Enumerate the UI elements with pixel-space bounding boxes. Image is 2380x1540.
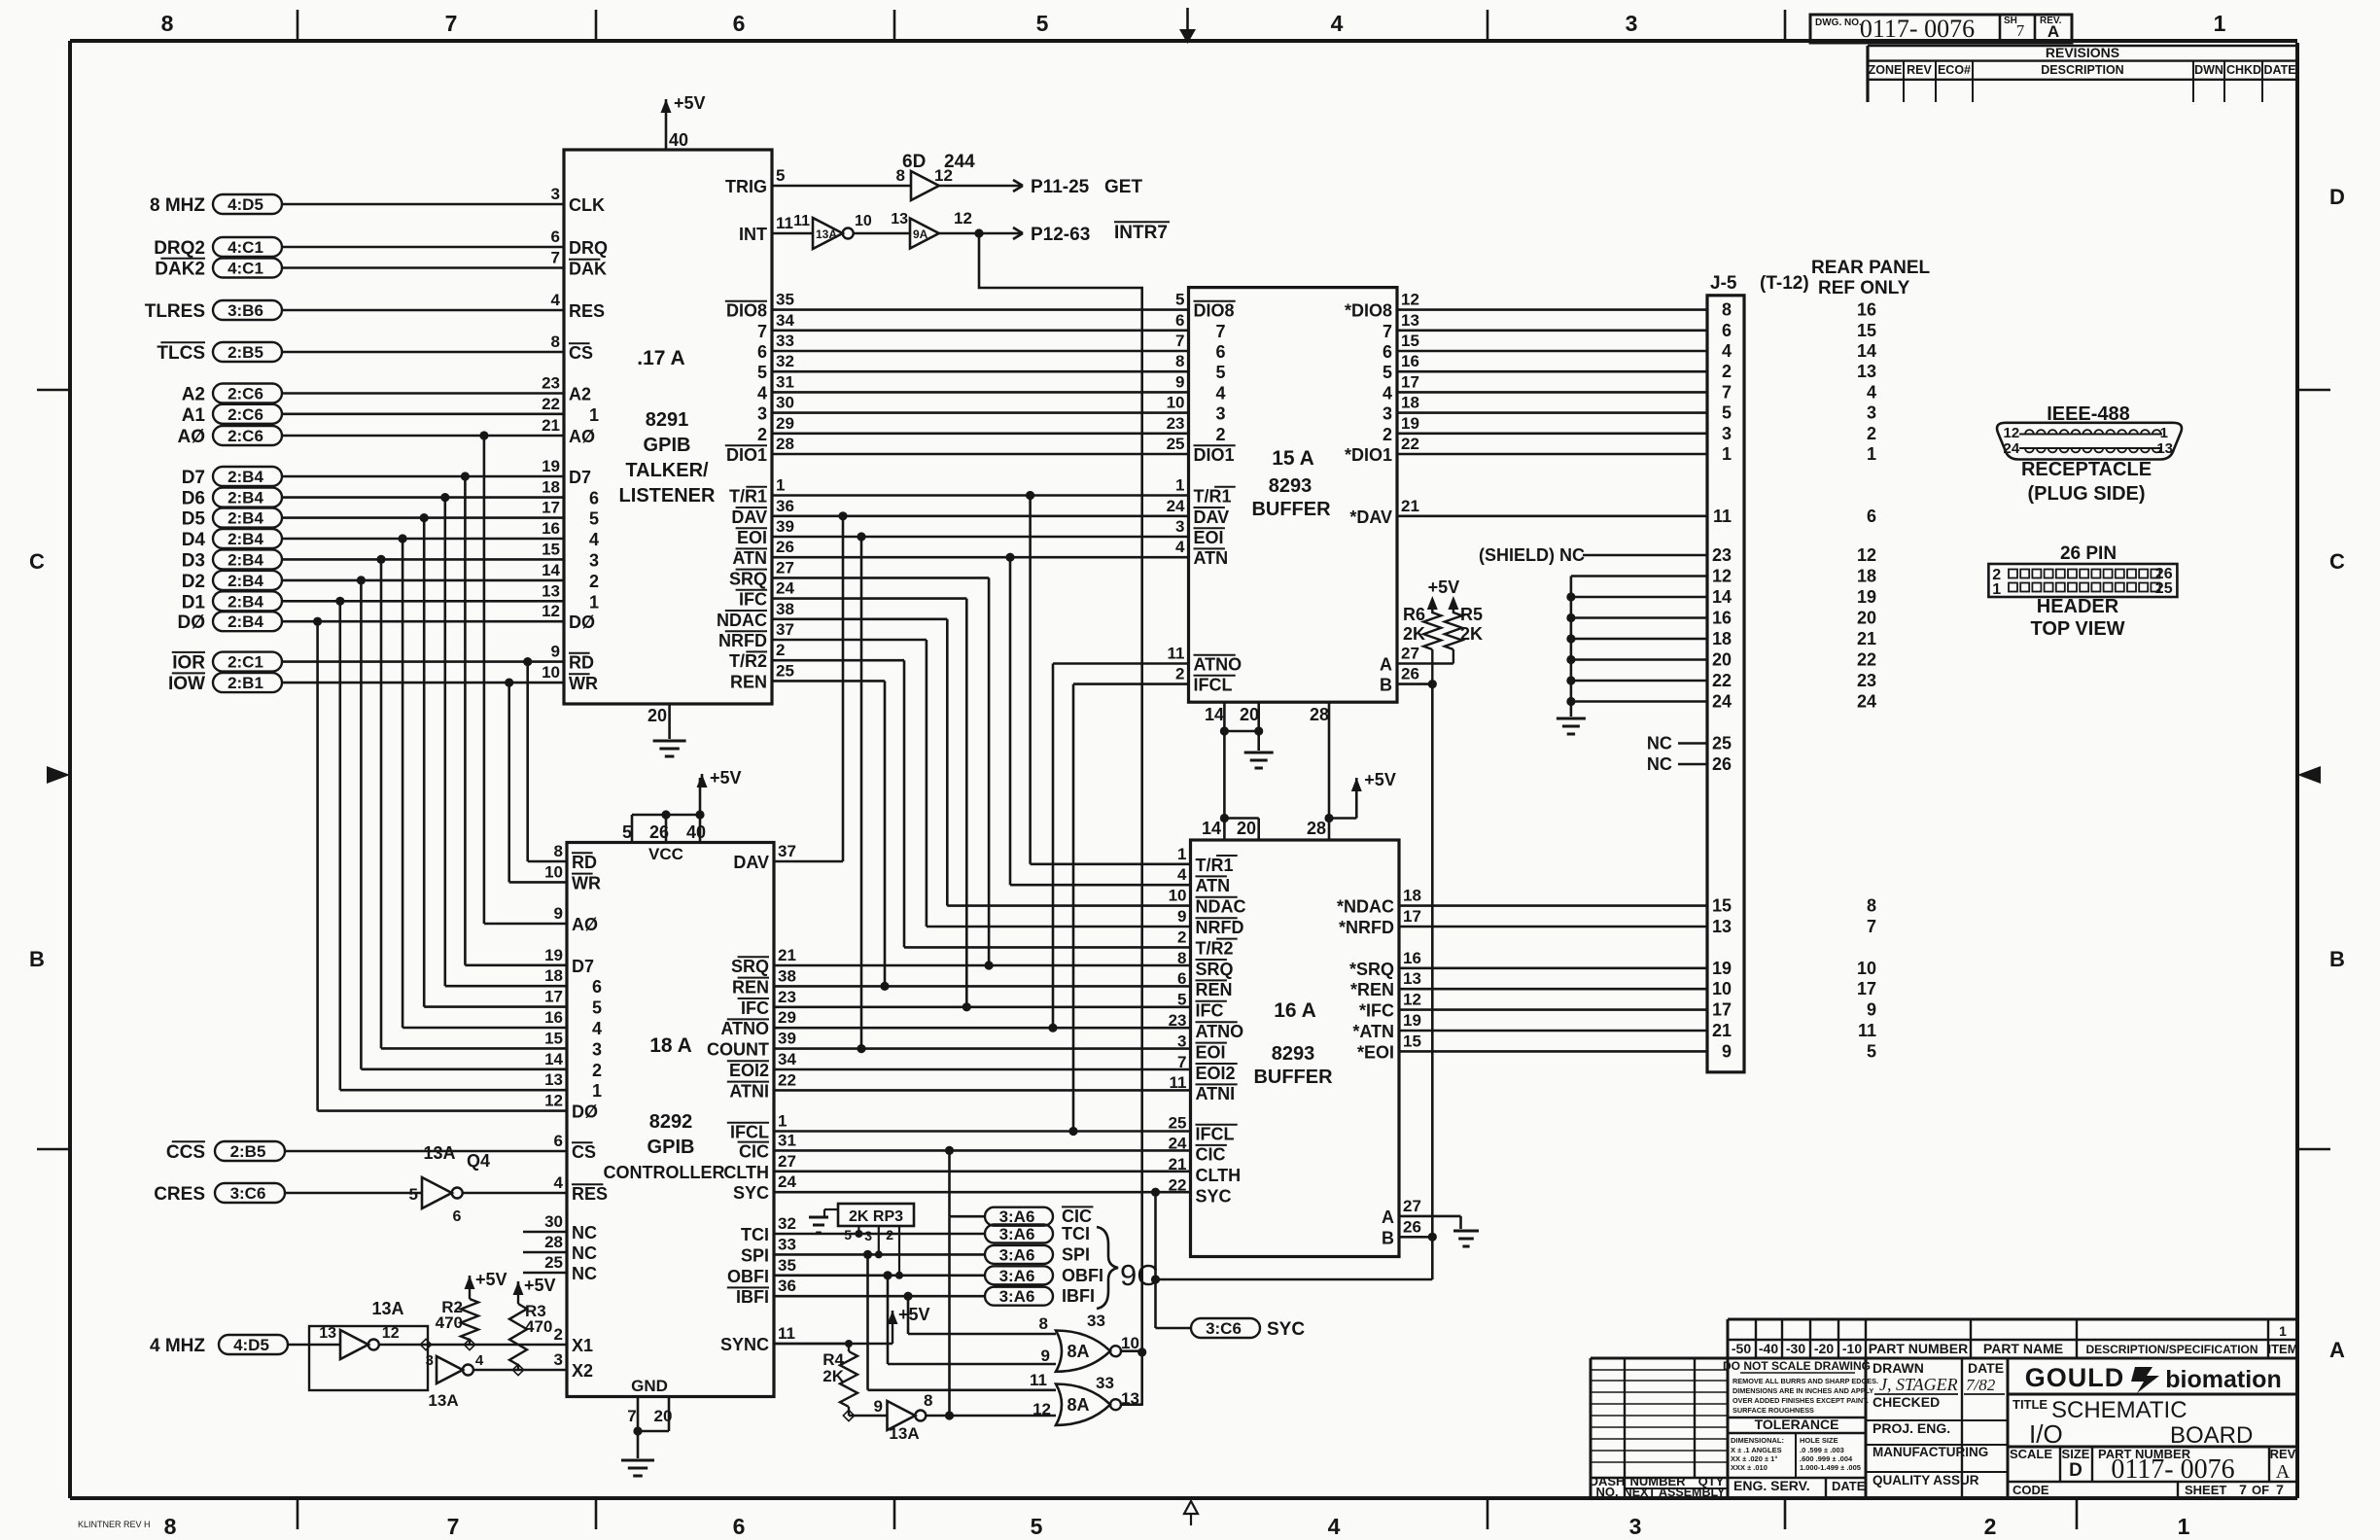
svg-text:13A: 13A: [889, 1424, 919, 1443]
svg-text:DWN: DWN: [2194, 63, 2223, 77]
svg-text:13: 13: [542, 581, 560, 600]
svg-text:470: 470: [525, 1317, 552, 1336]
svg-text:2:B4: 2:B4: [227, 468, 263, 486]
svg-text:37: 37: [776, 620, 794, 639]
svg-text:REN: REN: [730, 672, 767, 691]
svg-text:9: 9: [1175, 372, 1184, 391]
svg-text:29: 29: [776, 414, 794, 433]
svg-text:11: 11: [793, 213, 810, 229]
svg-text:D: D: [2069, 1460, 2082, 1481]
svg-text:IFCL: IFCL: [1196, 1125, 1235, 1144]
svg-text:X2: X2: [572, 1361, 593, 1381]
svg-text:3: 3: [1629, 1514, 1642, 1539]
svg-text:13A: 13A: [816, 227, 837, 241]
svg-text:3: 3: [757, 404, 767, 424]
svg-text:7: 7: [2239, 1482, 2247, 1497]
svg-text:GPIB: GPIB: [644, 435, 691, 456]
svg-text:DWG. NO.: DWG. NO.: [1815, 17, 1862, 28]
svg-text:AØ: AØ: [569, 427, 595, 446]
svg-text:28: 28: [1307, 819, 1326, 838]
svg-text:8 MHZ: 8 MHZ: [150, 195, 205, 216]
svg-text:14: 14: [1857, 341, 1876, 361]
svg-text:13: 13: [1121, 1389, 1139, 1408]
svg-text:PROJ. ENG.: PROJ. ENG.: [1872, 1420, 1950, 1436]
svg-text:12: 12: [1857, 545, 1876, 565]
svg-text:DRAWN: DRAWN: [1872, 1360, 1924, 1376]
svg-text:34: 34: [778, 1050, 796, 1068]
svg-text:6: 6: [757, 342, 767, 362]
svg-text:ATNO: ATNO: [1194, 655, 1242, 675]
svg-text:24: 24: [1857, 692, 1876, 712]
svg-text:1: 1: [1992, 581, 2001, 598]
svg-text:DATE: DATE: [2263, 63, 2295, 77]
svg-text:SYC: SYC: [733, 1183, 769, 1203]
svg-text:NDAC: NDAC: [717, 611, 767, 630]
svg-text:LISTENER: LISTENER: [619, 485, 716, 507]
svg-text:6: 6: [1722, 321, 1732, 340]
svg-text:CLK: CLK: [569, 195, 605, 215]
svg-text:RECEPTACLE: RECEPTACLE: [2021, 459, 2152, 480]
svg-text:19: 19: [1403, 1011, 1421, 1030]
svg-text:A2: A2: [182, 385, 205, 405]
svg-text:23: 23: [778, 988, 796, 1006]
svg-text:22: 22: [1401, 435, 1419, 453]
svg-text:36: 36: [778, 1277, 796, 1295]
svg-text:.0 .599 ± .003: .0 .599 ± .003: [1800, 1446, 1844, 1454]
svg-text:7: 7: [1722, 382, 1732, 402]
svg-text:22: 22: [542, 395, 560, 413]
svg-text:29: 29: [778, 1008, 796, 1027]
svg-text:4: 4: [589, 530, 599, 549]
svg-text:8: 8: [161, 11, 174, 36]
svg-text:4: 4: [1177, 865, 1187, 884]
svg-text:5: 5: [622, 822, 632, 842]
svg-text:MANUFACTURING: MANUFACTURING: [1872, 1445, 1988, 1459]
svg-text:.17 A: .17 A: [637, 347, 684, 369]
svg-text:RES: RES: [569, 301, 605, 321]
svg-text:13A: 13A: [428, 1391, 458, 1410]
svg-text:3: 3: [1175, 517, 1184, 536]
svg-text:C: C: [2329, 549, 2345, 574]
svg-text:17: 17: [542, 499, 560, 517]
svg-text:2: 2: [886, 1227, 893, 1242]
svg-text:3:A6: 3:A6: [999, 1245, 1035, 1264]
svg-text:4: 4: [592, 1019, 602, 1038]
svg-text:5: 5: [1031, 1514, 1043, 1539]
svg-text:35: 35: [778, 1256, 796, 1275]
svg-text:4: 4: [1867, 382, 1876, 402]
svg-text:DØ: DØ: [178, 612, 206, 633]
svg-text:1: 1: [592, 1081, 602, 1101]
svg-text:9: 9: [551, 643, 560, 661]
svg-text:7: 7: [1216, 322, 1226, 341]
svg-text:38: 38: [778, 966, 796, 985]
svg-text:D1: D1: [182, 592, 206, 612]
svg-text:BOARD: BOARD: [2170, 1422, 2253, 1449]
svg-text:IBFI: IBFI: [1062, 1286, 1095, 1306]
svg-text:19: 19: [544, 946, 563, 964]
svg-text:9: 9: [1867, 1000, 1876, 1020]
svg-text:T/R1: T/R1: [729, 487, 767, 507]
svg-text:2:B4: 2:B4: [227, 572, 263, 590]
svg-text:8A: 8A: [1067, 1342, 1089, 1361]
svg-text:TLRES: TLRES: [145, 301, 205, 322]
svg-text:EOI2: EOI2: [729, 1061, 769, 1080]
svg-text:REVISIONS: REVISIONS: [2046, 45, 2119, 60]
svg-text:2:B5: 2:B5: [230, 1142, 266, 1161]
svg-text:3: 3: [592, 1039, 602, 1059]
svg-text:1.000-1.499 ± .005: 1.000-1.499 ± .005: [1800, 1463, 1861, 1472]
svg-text:B: B: [1382, 1228, 1394, 1247]
svg-text:7: 7: [2276, 1482, 2284, 1497]
svg-text:3: 3: [554, 1350, 563, 1369]
svg-text:+5V: +5V: [1428, 577, 1460, 597]
svg-text:5: 5: [776, 166, 785, 185]
svg-text:10: 10: [542, 663, 560, 682]
svg-text:4: 4: [551, 291, 561, 309]
svg-text:31: 31: [776, 372, 794, 391]
svg-text:GOULD: GOULD: [2025, 1363, 2125, 1392]
svg-text:*EOI: *EOI: [1357, 1042, 1394, 1062]
svg-text:REN: REN: [732, 977, 769, 997]
svg-text:CS: CS: [572, 1142, 596, 1162]
svg-text:27: 27: [1403, 1197, 1421, 1215]
svg-text:SRQ: SRQ: [729, 569, 767, 588]
svg-text:RES: RES: [572, 1184, 608, 1204]
svg-text:EOI2: EOI2: [1196, 1064, 1236, 1083]
svg-text:3: 3: [589, 550, 599, 570]
svg-text:6: 6: [1216, 342, 1226, 362]
svg-text:5: 5: [1036, 11, 1049, 36]
svg-text:DRQ: DRQ: [569, 238, 608, 258]
svg-text:.600 .999 ± .004: .600 .999 ± .004: [1800, 1454, 1853, 1463]
svg-text:KLINTNER REV H: KLINTNER REV H: [78, 1520, 151, 1529]
svg-text:5: 5: [1216, 363, 1226, 382]
svg-text:28: 28: [544, 1233, 563, 1251]
svg-text:2: 2: [554, 1325, 563, 1344]
svg-text:IFC: IFC: [741, 998, 769, 1018]
svg-text:40: 40: [686, 822, 706, 842]
svg-text:biomation: biomation: [2165, 1366, 2281, 1393]
svg-text:12: 12: [1401, 291, 1419, 309]
svg-text:0117- 0076: 0117- 0076: [2111, 1454, 2234, 1485]
svg-text:A2: A2: [569, 385, 591, 404]
svg-text:7: 7: [551, 249, 560, 267]
svg-text:1: 1: [1867, 444, 1876, 464]
svg-text:6: 6: [592, 977, 602, 997]
svg-text:EOI: EOI: [1194, 528, 1224, 547]
svg-text:ATNI: ATNI: [729, 1081, 769, 1101]
svg-text:7: 7: [1867, 917, 1876, 936]
svg-text:7: 7: [447, 1514, 460, 1539]
svg-text:DAV: DAV: [1194, 507, 1230, 527]
svg-text:XXX ± .010: XXX ± .010: [1731, 1463, 1767, 1472]
svg-text:-40: -40: [1759, 1341, 1778, 1356]
svg-text:*DIO8: *DIO8: [1345, 301, 1392, 321]
svg-text:0117- 0076: 0117- 0076: [1860, 15, 1975, 43]
svg-text:10: 10: [855, 213, 872, 229]
svg-text:11: 11: [1858, 1021, 1876, 1040]
svg-text:9: 9: [874, 1397, 883, 1416]
svg-text:12: 12: [2004, 425, 2020, 441]
svg-text:D7: D7: [572, 957, 594, 976]
svg-text:DIO1: DIO1: [1194, 445, 1235, 465]
svg-text:DRQ2: DRQ2: [154, 238, 205, 259]
svg-text:ATN: ATN: [1196, 876, 1231, 895]
svg-text:12: 12: [1712, 567, 1732, 586]
svg-text:8291: 8291: [646, 409, 689, 431]
svg-text:BUFFER: BUFFER: [1253, 1067, 1333, 1088]
svg-text:33: 33: [1096, 1374, 1114, 1392]
svg-text:DIO1: DIO1: [726, 445, 767, 465]
svg-text:D3: D3: [182, 550, 205, 571]
svg-text:8: 8: [551, 332, 560, 351]
svg-text:26: 26: [1712, 754, 1732, 774]
svg-text:ITEM: ITEM: [2267, 1342, 2297, 1356]
svg-text:8293: 8293: [1269, 475, 1312, 497]
svg-text:22: 22: [1857, 650, 1876, 670]
svg-text:1: 1: [778, 1112, 787, 1131]
svg-text:DIMENSIONAL:: DIMENSIONAL:: [1731, 1436, 1784, 1445]
svg-text:8: 8: [1722, 300, 1732, 320]
svg-text:3: 3: [1722, 424, 1732, 443]
svg-text:6: 6: [551, 227, 560, 246]
svg-text:13A: 13A: [423, 1143, 455, 1163]
svg-text:24: 24: [1712, 692, 1732, 712]
svg-text:11: 11: [1030, 1371, 1047, 1389]
svg-text:20: 20: [1237, 819, 1256, 838]
svg-text:ECO#: ECO#: [1938, 63, 1971, 77]
svg-text:2: 2: [1175, 665, 1184, 683]
svg-text:6: 6: [733, 11, 746, 36]
svg-text:4: 4: [1216, 383, 1226, 402]
svg-text:GET: GET: [1104, 177, 1142, 197]
svg-text:SRQ: SRQ: [1196, 960, 1234, 979]
svg-text:2:B4: 2:B4: [227, 530, 263, 548]
svg-text:3: 3: [864, 1228, 872, 1243]
svg-text:DAV: DAV: [733, 853, 769, 872]
svg-text:13: 13: [1857, 362, 1876, 381]
svg-text:X ± .1 ANGLES: X ± .1 ANGLES: [1731, 1446, 1782, 1454]
svg-text:NO.: NO.: [1595, 1485, 1618, 1499]
svg-text:35: 35: [776, 291, 794, 309]
svg-text:4: 4: [1382, 383, 1392, 402]
svg-text:2:B4: 2:B4: [227, 489, 263, 507]
svg-text:11: 11: [778, 1324, 795, 1343]
svg-text:SCALE: SCALE: [2010, 1447, 2052, 1461]
svg-text:HOLE SIZE: HOLE SIZE: [1800, 1436, 1838, 1445]
svg-text:ATNI: ATNI: [1196, 1084, 1236, 1103]
svg-text:A: A: [2047, 22, 2059, 41]
svg-text:21: 21: [1857, 629, 1876, 648]
svg-text:CHECKED: CHECKED: [1872, 1394, 1940, 1410]
svg-text:SHEET: SHEET: [2185, 1483, 2226, 1497]
svg-text:X1: X1: [572, 1336, 593, 1355]
svg-text:NRFD: NRFD: [1196, 918, 1244, 937]
svg-text:1: 1: [776, 476, 785, 495]
svg-text:A: A: [1380, 655, 1392, 675]
svg-text:INT: INT: [739, 225, 767, 244]
svg-text:DØ: DØ: [572, 1102, 598, 1122]
svg-text:5: 5: [589, 509, 599, 529]
svg-text:6: 6: [589, 489, 599, 508]
svg-text:13: 13: [1403, 969, 1421, 988]
svg-text:*REN: *REN: [1350, 980, 1394, 999]
svg-text:DESCRIPTION: DESCRIPTION: [2041, 63, 2123, 77]
svg-text:25: 25: [776, 661, 794, 680]
svg-text:24: 24: [2004, 440, 2020, 457]
svg-text:2:B4: 2:B4: [227, 592, 263, 611]
svg-text:DAK: DAK: [569, 260, 607, 279]
svg-text:4:D5: 4:D5: [227, 195, 263, 214]
svg-text:NC: NC: [572, 1243, 597, 1263]
svg-text:4: 4: [1175, 538, 1185, 556]
svg-text:*NDAC: *NDAC: [1337, 897, 1394, 917]
svg-text:HEADER: HEADER: [2037, 596, 2119, 617]
svg-text:15: 15: [1712, 896, 1732, 916]
svg-text:IBFI: IBFI: [736, 1287, 769, 1307]
svg-text:QUALITY ASSUR: QUALITY ASSUR: [1872, 1473, 1979, 1487]
svg-text:32: 32: [776, 352, 794, 370]
svg-text:XX ± .020 ± 1°: XX ± .020 ± 1°: [1731, 1454, 1777, 1463]
svg-text:P11-25: P11-25: [1031, 177, 1090, 197]
svg-text:DAK2: DAK2: [155, 260, 205, 280]
svg-text:*NRFD: *NRFD: [1339, 918, 1394, 937]
svg-text:3: 3: [1216, 404, 1226, 424]
svg-text:BUFFER: BUFFER: [1251, 499, 1331, 520]
svg-text:NEXT ASSEMBLY: NEXT ASSEMBLY: [1624, 1486, 1726, 1499]
svg-text:24: 24: [778, 1172, 796, 1191]
svg-text:D5: D5: [182, 509, 206, 530]
svg-text:18: 18: [1857, 567, 1876, 586]
svg-text:18: 18: [542, 478, 560, 497]
svg-text:1: 1: [1175, 476, 1184, 495]
svg-text:+5V: +5V: [1364, 770, 1396, 789]
svg-text:EOI: EOI: [1196, 1042, 1226, 1062]
svg-text:7: 7: [445, 11, 458, 36]
svg-text:2:B4: 2:B4: [227, 612, 263, 631]
svg-text:IOR: IOR: [172, 653, 205, 674]
svg-text:SCHEMATIC: SCHEMATIC: [2051, 1397, 2187, 1423]
svg-text:9: 9: [1722, 1041, 1732, 1061]
svg-text:REN: REN: [1196, 980, 1233, 999]
svg-text:OBFI: OBFI: [1062, 1266, 1103, 1285]
svg-text:*DIO1: *DIO1: [1345, 445, 1392, 465]
svg-text:23: 23: [1712, 545, 1732, 565]
svg-text:NC: NC: [572, 1223, 597, 1242]
svg-text:6: 6: [453, 1208, 462, 1225]
svg-text:IFC: IFC: [1196, 1001, 1224, 1021]
svg-text:DØ: DØ: [569, 612, 595, 632]
svg-text:21: 21: [778, 946, 796, 964]
svg-text:19: 19: [542, 457, 560, 475]
svg-text:470: 470: [436, 1313, 463, 1332]
svg-text:15 A: 15 A: [1272, 447, 1314, 470]
svg-text:D4: D4: [182, 530, 206, 550]
svg-text:TOP VIEW: TOP VIEW: [2030, 618, 2124, 640]
svg-text:30: 30: [544, 1212, 563, 1231]
svg-text:(T-12): (T-12): [1760, 273, 1809, 294]
svg-text:6: 6: [1382, 342, 1392, 362]
svg-text:CODE: CODE: [2012, 1483, 2049, 1497]
svg-text:10: 10: [1857, 959, 1876, 978]
svg-text:17: 17: [1857, 979, 1876, 998]
svg-text:ZONE: ZONE: [1869, 63, 1903, 77]
svg-text:9: 9: [1041, 1347, 1050, 1365]
svg-text:33: 33: [778, 1235, 796, 1253]
svg-text:28: 28: [776, 435, 794, 453]
svg-text:10: 10: [544, 862, 563, 881]
svg-text:D2: D2: [182, 572, 205, 592]
svg-text:ATN: ATN: [732, 548, 767, 568]
svg-text:5: 5: [592, 998, 602, 1018]
svg-text:2K: 2K: [1460, 624, 1483, 644]
svg-text:CONTROLLER: CONTROLLER: [604, 1163, 725, 1182]
svg-text:14: 14: [544, 1050, 563, 1068]
svg-text:2: 2: [1722, 362, 1732, 381]
svg-text:DIO8: DIO8: [726, 301, 767, 321]
svg-text:16: 16: [1403, 949, 1421, 967]
svg-text:13: 13: [1712, 917, 1732, 936]
svg-text:2: 2: [757, 425, 767, 444]
svg-text:16: 16: [1857, 300, 1876, 320]
svg-text:7: 7: [627, 1407, 636, 1425]
svg-text:23: 23: [542, 374, 560, 393]
svg-text:11: 11: [776, 214, 793, 232]
svg-text:SURFACE ROUGHNESS: SURFACE ROUGHNESS: [1732, 1406, 1814, 1415]
svg-text:25: 25: [1167, 435, 1185, 453]
svg-text:13: 13: [544, 1070, 563, 1089]
svg-text:8292: 8292: [649, 1111, 693, 1133]
svg-text:10: 10: [1169, 887, 1187, 905]
svg-text:TCI: TCI: [1062, 1224, 1090, 1243]
svg-text:16: 16: [1712, 609, 1732, 628]
svg-text:CIC: CIC: [739, 1141, 769, 1161]
svg-text:8: 8: [1039, 1314, 1048, 1333]
svg-text:2:C6: 2:C6: [227, 427, 263, 445]
svg-text:SPI: SPI: [741, 1245, 769, 1265]
svg-text:19: 19: [1401, 414, 1419, 433]
svg-text:B: B: [1380, 676, 1392, 695]
svg-text:2K RP3: 2K RP3: [849, 1208, 903, 1225]
svg-text:7: 7: [757, 322, 767, 341]
svg-text:CHKD: CHKD: [2226, 63, 2261, 77]
svg-text:CRES: CRES: [154, 1184, 205, 1205]
svg-text:TITLE: TITLE: [2012, 1397, 2047, 1412]
svg-text:27: 27: [1401, 645, 1419, 663]
svg-text:-20: -20: [1814, 1341, 1834, 1356]
svg-text:16: 16: [1401, 352, 1419, 370]
svg-text:4: 4: [554, 1173, 564, 1192]
svg-text:4:D5: 4:D5: [233, 1336, 269, 1354]
svg-text:ENG. SERV.: ENG. SERV.: [1733, 1478, 1810, 1493]
svg-text:3: 3: [426, 1352, 434, 1369]
svg-text:I/O: I/O: [2029, 1419, 2063, 1449]
svg-text:2:B4: 2:B4: [227, 550, 263, 569]
svg-text:14: 14: [1712, 587, 1732, 607]
svg-text:B: B: [29, 947, 45, 971]
svg-text:30: 30: [776, 394, 794, 412]
svg-text:8: 8: [1867, 896, 1876, 916]
svg-text:SRQ: SRQ: [731, 957, 769, 976]
svg-text:SYC: SYC: [1196, 1187, 1232, 1207]
svg-text:18: 18: [1403, 887, 1421, 905]
svg-text:2: 2: [1177, 927, 1186, 946]
svg-text:IFCL: IFCL: [730, 1123, 769, 1142]
svg-text:33: 33: [776, 332, 794, 350]
svg-text:8: 8: [164, 1514, 177, 1539]
svg-text:EOI: EOI: [737, 528, 767, 547]
